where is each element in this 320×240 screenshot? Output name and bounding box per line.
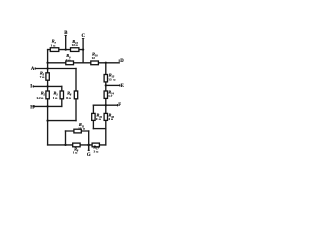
terminal bar I bbox=[32, 85, 34, 87]
wire right chain vertical bbox=[105, 63, 107, 145]
svg-text:13: 13 bbox=[78, 127, 82, 131]
svg-text:I: I bbox=[30, 84, 32, 89]
terminal bar D bbox=[118, 59, 120, 62]
svg-text:1.7: 1.7 bbox=[108, 94, 112, 98]
junction B stub on top row bbox=[65, 48, 67, 50]
resistor R10 (second row right) bbox=[91, 61, 99, 65]
svg-text:E: E bbox=[121, 84, 124, 89]
svg-text:Ω: Ω bbox=[75, 152, 77, 155]
resistor R3 (parallel band middle) bbox=[60, 91, 63, 99]
wire B stub bbox=[65, 36, 67, 49]
wire node F horizontal bbox=[93, 104, 117, 106]
resistor R8 (bottom row left) bbox=[73, 143, 80, 147]
terminal bar G bbox=[88, 149, 90, 151]
junction chain / node E bbox=[105, 84, 107, 86]
junction left bus / node H wire bbox=[46, 105, 48, 107]
wire F-pair left vertical bbox=[92, 105, 94, 128]
terminal bar E bbox=[119, 84, 121, 86]
svg-text:Ω: Ω bbox=[111, 118, 113, 121]
svg-text:C: C bbox=[82, 34, 86, 39]
resistor R2 (parallel band left) bbox=[46, 91, 49, 99]
wire node I horizontal bbox=[33, 85, 62, 87]
svg-text:Ω: Ω bbox=[55, 97, 57, 100]
junction C stub on top row bbox=[82, 48, 84, 50]
svg-text:G: G bbox=[87, 153, 91, 158]
resistor R17 (bottom row right) bbox=[92, 143, 99, 147]
junction left bus / second row bbox=[46, 62, 48, 64]
resistor R12 (top row right) bbox=[71, 48, 79, 52]
junction branch left / bottom row bbox=[64, 144, 66, 146]
svg-text:Ω: Ω bbox=[76, 44, 78, 47]
wire G stub below bbox=[88, 145, 90, 150]
wire branch left vertical bbox=[65, 131, 67, 145]
wire node A horizontal bbox=[35, 68, 76, 70]
resistor R14 (right chain middle) bbox=[104, 91, 107, 98]
junction left bus / node A wire bbox=[46, 67, 48, 69]
resistor R13 (right chain upper) bbox=[104, 75, 107, 82]
resistor R16 (pair right, on chain) bbox=[104, 113, 107, 120]
svg-text:Ω: Ω bbox=[68, 59, 70, 62]
junction chain top / second row bbox=[105, 62, 107, 64]
terminal bar A bbox=[34, 67, 36, 69]
wire C stub bbox=[82, 39, 84, 63]
svg-text:Ω: Ω bbox=[41, 97, 43, 100]
svg-text:12: 12 bbox=[92, 56, 96, 60]
svg-text:F: F bbox=[118, 103, 121, 108]
wire pair bottom connector bbox=[93, 128, 105, 130]
resistor R6 (parallel band right) bbox=[74, 91, 77, 99]
wire node H horizontal bbox=[34, 105, 62, 107]
svg-text:Ω: Ω bbox=[69, 97, 71, 100]
terminal bar B bbox=[65, 34, 67, 36]
wire middle parallel vertical bbox=[61, 86, 63, 106]
junction node G / bottom row bbox=[87, 144, 90, 147]
wire A-drop vertical bbox=[75, 69, 77, 121]
wire node G vertical bbox=[88, 131, 90, 145]
resistor R5 (left bus upper) bbox=[46, 73, 49, 80]
svg-text:Ω: Ω bbox=[99, 118, 101, 121]
wire node E stub bbox=[106, 84, 120, 86]
terminal bar H bbox=[33, 105, 35, 107]
terminal bar F bbox=[117, 104, 119, 106]
wire top row (B-C row) bbox=[48, 49, 84, 51]
svg-text:D: D bbox=[120, 59, 124, 64]
svg-text:13: 13 bbox=[108, 77, 112, 81]
svg-text:H: H bbox=[30, 105, 34, 110]
wire second row (to D) bbox=[48, 62, 120, 64]
junction chain / node F wire bbox=[105, 104, 107, 106]
resistor R11 (branch) bbox=[74, 129, 81, 133]
resistor R7 (top row left) bbox=[50, 48, 59, 52]
terminal bar C bbox=[82, 38, 84, 40]
svg-text:Ω: Ω bbox=[53, 44, 55, 47]
svg-text:Ω: Ω bbox=[113, 78, 115, 81]
svg-text:A: A bbox=[31, 67, 35, 72]
wire mid horizontal bbox=[48, 120, 76, 122]
svg-text:Ω: Ω bbox=[42, 76, 44, 79]
resistor R15 (pair left) bbox=[92, 113, 95, 120]
svg-text:Ω: Ω bbox=[96, 151, 98, 154]
wire branch upper horizontal bbox=[66, 130, 89, 132]
junction left bus / node I wire bbox=[46, 85, 48, 87]
junction left bus / mid wire bbox=[46, 119, 48, 121]
resistor R9 (second row left) bbox=[66, 61, 74, 65]
wire left vertical bus bbox=[47, 50, 49, 145]
svg-text:Ω: Ω bbox=[83, 128, 85, 131]
wire bottom row bbox=[48, 144, 106, 146]
